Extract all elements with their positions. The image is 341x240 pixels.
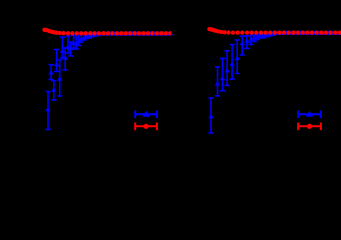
panel right: blue series error bars (208, 33, 275, 133)
panel right: red series dots (207, 27, 341, 35)
legend right: blue errorbar entry (298, 111, 321, 119)
panel right: blue series triangle markers (208, 30, 341, 118)
legend left: red errorbar entry (135, 123, 157, 131)
legend right: red errorbar entry (298, 123, 321, 131)
panel left: red series dots (42, 28, 177, 36)
panel left: blue series triangle markers (45, 31, 174, 112)
clipped blue marker at left panel edge (172, 34, 174, 36)
panel left: blue series error bars (45, 33, 104, 129)
legend left: blue errorbar entry (135, 111, 157, 119)
